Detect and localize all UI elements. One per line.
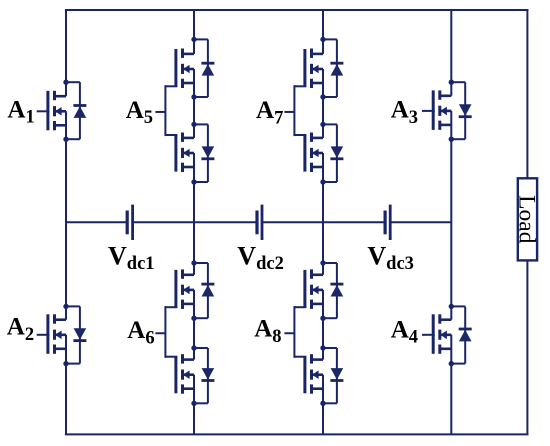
wire rail C segment 1 — [322, 10, 324, 54]
junction dot A6 lower drain — [191, 345, 196, 350]
junction dot A7 lower source — [320, 179, 325, 184]
wire top bus — [65, 9, 529, 11]
junction dot A1 drain — [63, 80, 68, 85]
junction dot A3 drain — [449, 80, 454, 85]
junction dot A5 lower source — [191, 179, 196, 184]
label Vdc3 — [367, 241, 414, 274]
wire rail C segment 3 — [322, 153, 324, 275]
body diode of A6 lower — [194, 348, 214, 403]
wire gate lead A3 — [422, 110, 435, 112]
transistor A1 — [48, 91, 66, 131]
wire gate yoke A7 — [284, 85, 306, 136]
label A7 — [256, 97, 283, 128]
body diode of A5 lower — [194, 124, 214, 182]
load — [513, 178, 539, 260]
wire left rail upper segment — [65, 10, 67, 96]
label A2 — [7, 314, 34, 345]
label Vdc2 — [237, 241, 284, 274]
wire gate yoke A5 — [155, 85, 177, 136]
junction dot A6 upper source — [191, 316, 196, 321]
label A5 — [126, 97, 153, 128]
wire rail C segment 5 — [322, 375, 324, 435]
junction dot A2 source — [63, 361, 68, 366]
junction dot A6 lower source — [191, 401, 196, 406]
wire right rail middle segment — [450, 111, 452, 320]
wire gate lead A1 — [37, 110, 50, 112]
battery Vdc2 — [257, 205, 262, 240]
wire middle bus segment 2 — [133, 221, 257, 223]
body diode of A8 upper — [323, 263, 343, 318]
wire rail C segment 2 — [322, 69, 324, 138]
junction dot A4 drain — [449, 304, 454, 309]
wire right rail upper segment — [450, 10, 452, 96]
junction dot A4 source — [449, 361, 454, 366]
wire rail C segment 4 — [322, 290, 324, 360]
junction dot A7 upper drain — [320, 37, 325, 42]
wire middle bus segment 3 — [262, 221, 385, 223]
transistor A5 upper — [176, 49, 194, 89]
wire gate yoke A6 — [155, 306, 177, 358]
wire gate yoke A8 — [284, 306, 306, 358]
body diode of A2 — [66, 306, 86, 363]
body diode of A7 lower — [323, 124, 343, 182]
label A1 — [7, 96, 34, 127]
junction dot A5 lower drain — [191, 122, 196, 127]
junction dot A8 upper drain — [320, 260, 325, 265]
junction dot A1 source — [63, 137, 68, 142]
junction dot A6 upper drain — [191, 260, 196, 265]
wire load rail lower segment — [526, 260, 528, 434]
body diode of A4 — [451, 306, 471, 363]
wire gate lead A2 — [37, 334, 50, 336]
junction dot A2 drain — [63, 304, 68, 309]
junction dot A5 upper drain — [191, 37, 196, 42]
wire load rail upper segment — [526, 10, 528, 179]
body diode of A1 — [66, 82, 86, 139]
junction dot A8 lower source — [320, 401, 325, 406]
body diode of A5 upper — [194, 39, 214, 97]
transistor A6 upper — [176, 269, 194, 309]
wire rail B segment 1 — [193, 10, 195, 54]
battery Vdc1 — [127, 205, 132, 240]
wire rail B segment 4 — [193, 290, 195, 360]
wire rail B segment 3 — [193, 153, 195, 275]
wire gate lead A4 — [422, 334, 435, 336]
label Vdc1 — [108, 241, 155, 274]
wire middle bus segment 1 — [66, 221, 127, 223]
transistor A7 upper — [305, 49, 323, 89]
junction dot A7 upper source — [320, 94, 325, 99]
junction dot A8 lower drain — [320, 345, 325, 350]
label A4 — [391, 316, 418, 347]
body diode of A3 — [451, 82, 471, 139]
transistor A4 — [433, 314, 451, 354]
label A8 — [254, 316, 281, 347]
transistor A3 — [433, 90, 451, 129]
transistor A5 lower — [176, 133, 194, 173]
wire left rail lower segment — [65, 335, 67, 435]
label A6 — [127, 317, 154, 348]
junction dot A7 lower drain — [320, 122, 325, 127]
transistor A2 — [48, 314, 66, 354]
junction dot A3 source — [449, 137, 454, 142]
junction dot A8 upper source — [320, 316, 325, 321]
junction dot A5 upper source — [191, 94, 196, 99]
body diode of A8 lower — [323, 348, 343, 403]
body diode of A7 upper — [323, 39, 343, 97]
battery Vdc3 — [385, 205, 390, 240]
body diode of A6 upper — [194, 263, 214, 318]
transistor A7 lower — [305, 133, 323, 173]
transistor A8 lower — [305, 354, 323, 394]
wire rail B segment 5 — [193, 375, 195, 435]
wire bottom bus — [65, 433, 529, 435]
label A3 — [391, 97, 418, 128]
wire right rail lower segment — [450, 335, 452, 435]
transistor A8 upper — [305, 269, 323, 309]
wire rail B segment 2 — [193, 69, 195, 138]
wire left rail middle segment — [65, 111, 67, 319]
wire middle bus segment 4 — [390, 221, 451, 223]
transistor A6 lower — [176, 354, 194, 394]
svg-text:Load: Load — [513, 195, 539, 244]
